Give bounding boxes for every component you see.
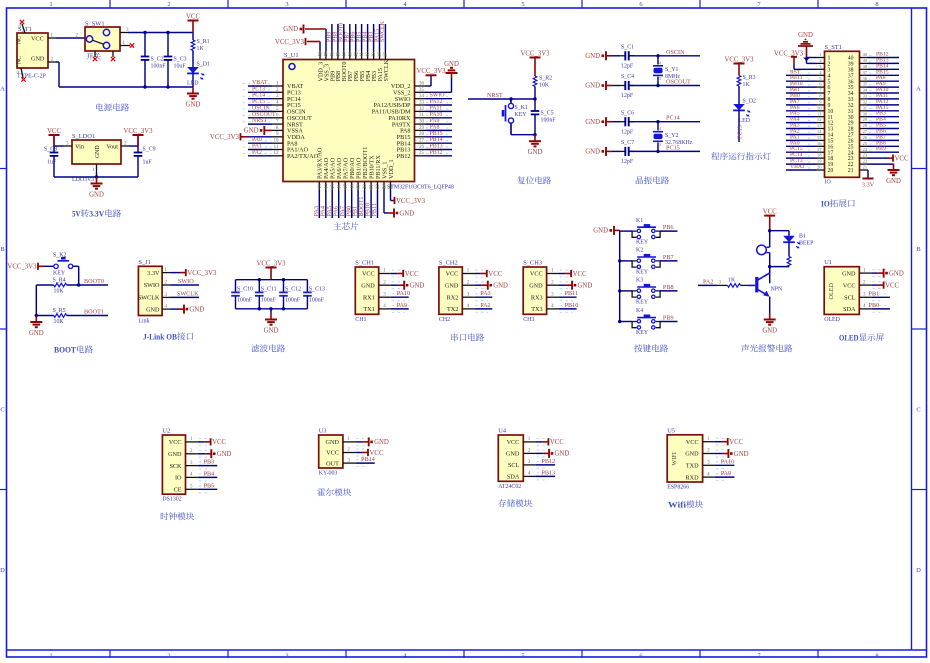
svg-text:24: 24 — [389, 184, 394, 189]
svg-text:NRST: NRST — [487, 92, 503, 99]
svg-text:S_C8: S_C8 — [44, 147, 57, 153]
wire VSS_2 — [426, 91, 452, 93]
pin 37 stub st1 — [860, 70, 868, 75]
pin name VBAT — [287, 83, 303, 90]
wire st1 PA0 — [786, 145, 817, 147]
wire ldo gnd — [96, 172, 98, 177]
wire PB0 oled — [871, 308, 890, 310]
svg-text:PA2: PA2 — [480, 302, 490, 309]
wire PA10 U5 — [715, 464, 735, 466]
svg-text:12pF: 12pF — [621, 129, 634, 135]
grid dashes — [426, 102, 451, 104]
chip pin-1 mark — [289, 64, 295, 70]
designator S_LDO1 — [72, 133, 95, 140]
wire boot bus — [35, 285, 37, 316]
net label PC13 — [252, 86, 265, 92]
pin name PA3/RX/AO — [317, 147, 324, 179]
capacitor S_C4 — [625, 81, 628, 90]
junction alarm join — [768, 265, 771, 268]
pin name CE U2 — [174, 487, 182, 494]
wire T1.GND — [56, 61, 59, 63]
pin 42 stub top — [354, 51, 359, 60]
svg-text:29: 29 — [863, 117, 868, 122]
value 32.768KHz — [665, 140, 693, 146]
wire PB7 — [660, 260, 677, 262]
net label OSCIN — [252, 105, 270, 111]
ground port VSS_3 — [283, 25, 326, 34]
net label PA3 bottom — [313, 206, 320, 216]
pin 6 stub — [272, 113, 283, 118]
resistor base 1K — [728, 284, 741, 288]
svg-text:PA10: PA10 — [721, 458, 735, 465]
wire r end — [788, 266, 790, 268]
net label PB5 top — [356, 32, 362, 42]
pin 41 stub top — [360, 51, 365, 60]
value 1uF — [143, 160, 153, 166]
wire PB3 U2 — [198, 465, 218, 467]
LED S_D1 — [187, 67, 204, 80]
power port VCC ST1 — [887, 155, 909, 163]
svg-text:17: 17 — [344, 184, 349, 189]
pin 36 stub st1 — [860, 76, 868, 81]
grid dashes — [426, 121, 451, 123]
pin 3 stub S_CH3 — [547, 292, 559, 297]
label ESP8266 — [667, 485, 689, 491]
title 按键电路 — [634, 344, 668, 352]
svg-text:VCC: VCC — [446, 271, 459, 278]
pin name PA9TX — [392, 121, 411, 128]
svg-text:RX3: RX3 — [531, 294, 543, 301]
transistor Q1 NPN — [748, 273, 770, 297]
wire PB8 top — [337, 24, 339, 51]
power VCC_3V3 VDD_2 — [416, 68, 446, 76]
svg-text:26: 26 — [863, 135, 868, 140]
svg-text:VCC_3V3: VCC_3V3 — [256, 260, 286, 267]
pin 23 stub bottom — [383, 182, 388, 191]
net label PA1 — [252, 144, 262, 150]
net label OSCOUT — [252, 112, 276, 118]
pin name VCC — [362, 271, 375, 278]
svg-text:PB12: PB12 — [430, 150, 443, 156]
wire VDD_1 h — [391, 200, 394, 202]
svg-text:S_Y2: S_Y2 — [665, 133, 678, 139]
pin name PA11/USB/DM — [372, 109, 411, 116]
pin 1 stub — [48, 33, 56, 38]
label KEY — [515, 112, 528, 118]
grid dashes U5 3 — [716, 474, 733, 481]
pin 28 stub — [415, 132, 426, 137]
pin name NC bottom — [17, 56, 23, 64]
pin name 33 — [848, 97, 854, 103]
junction OSCOUT — [656, 84, 659, 87]
LED S_D2 — [733, 104, 750, 117]
svg-text:GND: GND — [217, 451, 232, 458]
pin 1 stub U3 — [343, 437, 355, 442]
svg-text:21: 21 — [370, 184, 375, 189]
wire SWIO — [426, 98, 453, 100]
pin 17 stub bottom — [344, 182, 349, 191]
net label PC14 — [666, 115, 680, 122]
svg-text:43: 43 — [348, 52, 353, 57]
wire Y2 to PC15 — [657, 143, 659, 152]
pin 2 stub U2 — [186, 449, 198, 454]
wire PC15 — [248, 104, 272, 106]
wire st1 PB9 — [868, 151, 900, 153]
wire key bus — [619, 230, 621, 321]
pin name GND j1 — [146, 306, 160, 313]
svg-text:S_C7: S_C7 — [621, 140, 634, 146]
value 12pF — [621, 64, 634, 70]
title 声光报警电路 — [741, 344, 792, 352]
wire to Y2 — [657, 122, 659, 131]
pin 3 stub — [64, 141, 72, 146]
grid dashes U4 1 — [537, 450, 554, 457]
svg-text:VCC_3V3: VCC_3V3 — [724, 56, 754, 63]
capacitor S_C12 — [279, 292, 288, 295]
pin name 3.3V j1 — [147, 270, 160, 277]
svg-text:S_C1: S_C1 — [621, 45, 634, 51]
pin 24 stub bottom — [389, 182, 394, 191]
pin name 24 — [848, 150, 854, 156]
value 12pF — [621, 159, 634, 165]
pin name OSCIN — [287, 109, 306, 116]
svg-text:GND: GND — [410, 283, 425, 290]
grid dashes — [426, 152, 451, 154]
wire ST1 pin3 — [794, 68, 817, 70]
svg-text:S_Y1: S_Y1 — [665, 67, 678, 73]
net label PA5 — [790, 111, 800, 117]
grid dashes U3 1 — [356, 449, 373, 456]
pin name 13 — [828, 127, 834, 133]
svg-text:OSCIN: OSCIN — [252, 105, 270, 111]
svg-text:S_C3: S_C3 — [174, 56, 187, 62]
net label PC13 rot — [737, 125, 744, 139]
ground reset — [528, 135, 543, 157]
grid dashes — [808, 161, 814, 163]
power VCC_3V3 ldo — [123, 128, 153, 146]
svg-text:PB6: PB6 — [663, 224, 674, 231]
svg-text:U3: U3 — [319, 428, 327, 435]
svg-text:Vout: Vout — [106, 144, 118, 151]
svg-text:GND: GND — [842, 270, 856, 277]
wire st1 VBAT — [786, 169, 817, 171]
grid dashes — [243, 95, 272, 97]
svg-text:3: 3 — [285, 653, 288, 659]
pin 1 stub oled — [859, 268, 871, 273]
svg-text:PA0: PA0 — [252, 137, 262, 143]
wire PB13 U4 — [536, 475, 556, 477]
grid dashes — [808, 143, 814, 145]
net label PB3 — [876, 111, 886, 117]
pin 32 stub — [415, 107, 426, 112]
net label PA2 — [480, 302, 490, 309]
grid dashes — [426, 108, 451, 110]
svg-text:OLED: OLED — [828, 282, 835, 299]
svg-text:NRST: NRST — [252, 118, 267, 124]
pin name VDDA — [287, 134, 305, 141]
grid dashes — [869, 78, 875, 80]
value 12pF — [621, 93, 634, 99]
svg-text:23: 23 — [383, 184, 388, 189]
wire PB4 U2 — [198, 476, 218, 478]
net label PB3 — [204, 459, 215, 466]
grid dashes — [869, 119, 875, 121]
wire st1 RST — [786, 74, 817, 76]
resistor S_R3 — [737, 76, 741, 87]
pin name 4 — [828, 73, 831, 79]
pin 33 stub — [415, 101, 426, 106]
ground port keys — [593, 226, 619, 235]
capacitor S_C2 — [141, 57, 150, 60]
net label PB8 — [663, 284, 674, 291]
title 电源电路 — [96, 103, 129, 111]
power port VCC_3V3 VDD_1 — [393, 197, 426, 205]
svg-text:13: 13 — [817, 123, 822, 128]
net label PB6 — [663, 224, 674, 231]
capacitor S_C5 — [531, 111, 540, 114]
grid dashes S_CH1 0 — [392, 270, 410, 277]
svg-text:U4: U4 — [498, 428, 507, 435]
svg-text:B: B — [0, 246, 5, 253]
svg-text:PB14: PB14 — [361, 456, 375, 463]
switch pole circle — [86, 36, 92, 42]
designator S_C4 — [621, 74, 634, 80]
pin 13 stub bottom — [318, 182, 323, 191]
wire st1 pin23 — [868, 157, 888, 159]
pin 40 stub top — [366, 51, 371, 60]
pin name PB10/TX — [369, 155, 376, 179]
svg-text:100nF: 100nF — [261, 297, 277, 303]
wire ST1 pin2 gnd — [807, 62, 817, 64]
svg-text:PB0: PB0 — [869, 302, 880, 309]
svg-text:44: 44 — [342, 52, 347, 57]
svg-text:TX2: TX2 — [447, 306, 458, 313]
wire st1 pin21 — [867, 169, 870, 171]
svg-text:100nF: 100nF — [237, 297, 253, 303]
power port VCC S_CH2 — [481, 270, 503, 278]
pin name RX3 — [531, 294, 543, 301]
wire vcc U3 — [355, 452, 362, 454]
pin name PA7/AO — [343, 157, 350, 179]
svg-text:36: 36 — [863, 76, 868, 81]
pin 4 stub U5 — [703, 472, 715, 477]
svg-text:OUT: OUT — [326, 460, 339, 467]
pin 11 stub st1 — [817, 111, 825, 116]
wire PB7 top — [349, 24, 351, 51]
pin name VCC U4 — [507, 439, 520, 446]
pin 2 stub st1 — [817, 58, 825, 63]
ground ST1 right — [886, 164, 901, 186]
pin name VDD_2 — [391, 83, 411, 90]
pin name 23 — [848, 156, 854, 162]
pin name Vin — [75, 144, 84, 151]
pin 3 stub U4 — [523, 460, 535, 465]
net label PC14 — [252, 93, 265, 99]
grid dashes U4 0 — [537, 439, 554, 446]
svg-text:OSCIN: OSCIN — [666, 49, 685, 56]
wire PB14 — [426, 142, 453, 144]
pin name VCC — [446, 271, 459, 278]
svg-text:K4: K4 — [636, 308, 643, 314]
svg-text:BOOT: BOOT — [54, 346, 76, 355]
pin 4 stub S_CH2 — [462, 304, 474, 309]
pin 16 stub bottom — [337, 182, 342, 191]
svg-text:22: 22 — [376, 184, 381, 189]
grid dashes U4 3 — [537, 473, 554, 480]
pin 31 stub — [415, 113, 426, 118]
svg-text:PC13: PC13 — [252, 86, 265, 92]
svg-text:GND: GND — [325, 439, 339, 446]
svg-text:VCC_3V3: VCC_3V3 — [774, 50, 804, 57]
wire PB1 bottom — [357, 190, 359, 218]
pin name 35 — [848, 85, 854, 91]
svg-text:Link: Link — [138, 319, 149, 325]
pin name PB3 — [371, 71, 378, 82]
svg-text:GND: GND — [444, 61, 459, 68]
svg-text:VCC: VCC — [843, 282, 856, 289]
wire PB8 — [660, 290, 677, 292]
svg-text:18: 18 — [817, 153, 822, 158]
pin stub S_C4 left — [620, 85, 625, 87]
pin 31 stub st1 — [860, 105, 868, 110]
svg-text:VCC: VCC — [729, 439, 743, 446]
wire Vout — [129, 145, 138, 147]
svg-text:24: 24 — [863, 147, 868, 152]
value 1K — [197, 46, 205, 52]
pin 26 stub st1 — [860, 135, 868, 140]
wire st1 PA8 — [868, 80, 900, 82]
pin name PA1/AO — [287, 147, 309, 154]
wire BOOT0 top — [343, 24, 345, 51]
svg-text:5: 5 — [521, 1, 524, 8]
pin 30 stub st1 — [860, 111, 868, 116]
pin name VCC oled — [843, 282, 856, 289]
wire VBAT — [248, 85, 272, 87]
title Wifi模块 — [668, 500, 703, 509]
pin 2 stub S_CH2 — [462, 280, 474, 285]
svg-text:23: 23 — [863, 153, 868, 158]
svg-text:PB11: PB11 — [565, 290, 579, 297]
svg-text:20: 20 — [363, 184, 368, 189]
value 100nF C12 — [285, 297, 301, 303]
label BEEP — [799, 241, 814, 247]
base stub — [717, 284, 728, 286]
grid dashes U5 0 — [716, 438, 733, 445]
svg-text:U1: U1 — [824, 259, 832, 266]
net label PB4 — [876, 117, 886, 123]
svg-text:VCC_3V3: VCC_3V3 — [416, 68, 446, 75]
pin 3 stub U2 — [186, 461, 198, 466]
pin 1 stub st1 — [817, 52, 825, 57]
svg-text:PB11: PB11 — [371, 203, 378, 217]
pin 1 stub — [92, 164, 97, 173]
wire PC14 — [629, 121, 700, 123]
svg-text:OLED: OLED — [839, 334, 859, 343]
pin 15 stub bottom — [331, 182, 336, 191]
pin 4 stub — [272, 101, 283, 106]
switch lever — [92, 40, 103, 44]
net label PC13 — [790, 158, 803, 164]
svg-text:VCC: VCC — [530, 271, 543, 278]
wire PC13 — [248, 91, 272, 93]
svg-text:32.768KHz: 32.768KHz — [665, 140, 693, 146]
svg-text:PB7: PB7 — [663, 254, 674, 261]
net label PB1 — [869, 290, 880, 297]
svg-text:31: 31 — [419, 113, 425, 118]
designator S_C7 — [621, 140, 634, 146]
grid dashes — [869, 143, 875, 145]
svg-text:10: 10 — [274, 139, 280, 144]
button K3 — [632, 285, 660, 298]
svg-text:2: 2 — [167, 653, 170, 659]
grid dashes U5 1 — [716, 450, 733, 457]
pin name PB13 — [397, 147, 411, 154]
designator S_C8 — [44, 147, 57, 153]
svg-text:CE: CE — [174, 487, 182, 494]
junction filter bot C12 — [282, 307, 285, 310]
wire PB13 — [426, 149, 453, 151]
grid dashes oled 2 — [872, 294, 888, 301]
svg-text:21: 21 — [863, 165, 868, 170]
pin name PB8 — [335, 71, 342, 82]
wire gnd S_CH2 — [474, 284, 482, 286]
wire down st1 gnd — [893, 163, 895, 166]
svg-text:C: C — [916, 407, 920, 414]
svg-text:SCL: SCL — [844, 295, 856, 302]
pin name PA8 — [287, 140, 297, 147]
pin 3 stub U5 — [703, 461, 715, 466]
grid dashes — [243, 146, 272, 148]
designator S_R4 — [53, 278, 66, 284]
pin 1 stub U5 — [703, 437, 715, 442]
pin name 36 — [848, 79, 854, 85]
svg-text:PB12: PB12 — [397, 153, 411, 160]
pin name SWCLK — [383, 59, 390, 81]
resistor S_R1 — [191, 40, 195, 51]
svg-text:VCC: VCC — [763, 208, 777, 215]
svg-text:42: 42 — [354, 52, 359, 57]
svg-text:GND: GND — [585, 53, 600, 60]
button K2 — [632, 255, 660, 268]
wire VCC_3V3 to C9 — [137, 135, 139, 153]
wire PB12 U4 — [536, 464, 556, 466]
svg-text:S_C5: S_C5 — [541, 111, 554, 117]
junction K2 — [618, 259, 621, 262]
svg-text:38: 38 — [378, 52, 383, 57]
pin 39 stub st1 — [860, 58, 868, 63]
pin name PC13 — [287, 90, 301, 97]
designator S_Y2 — [665, 133, 678, 139]
pin 10 stub — [272, 139, 283, 144]
pin name NRST — [287, 121, 303, 128]
LED S_D3 — [783, 236, 800, 249]
pin 1 stub S_CH1 — [379, 269, 391, 274]
svg-text:100nF: 100nF — [151, 63, 167, 69]
svg-text:SWIO: SWIO — [144, 282, 160, 289]
net label OSCOUT — [666, 79, 691, 86]
pin 35 stub — [415, 88, 426, 93]
svg-text:CH1: CH1 — [355, 317, 366, 323]
net label BOOT1 — [84, 309, 104, 316]
pin 45 stub top — [337, 51, 342, 60]
pin name PB14 — [397, 140, 411, 147]
net label PB15 — [876, 69, 889, 75]
wire to C11 — [258, 280, 260, 293]
wire D3 to R — [788, 242, 790, 256]
ground port S_CH3 — [566, 281, 592, 290]
pin 3 stub — [272, 94, 283, 99]
designator S_SW1 — [85, 21, 105, 28]
